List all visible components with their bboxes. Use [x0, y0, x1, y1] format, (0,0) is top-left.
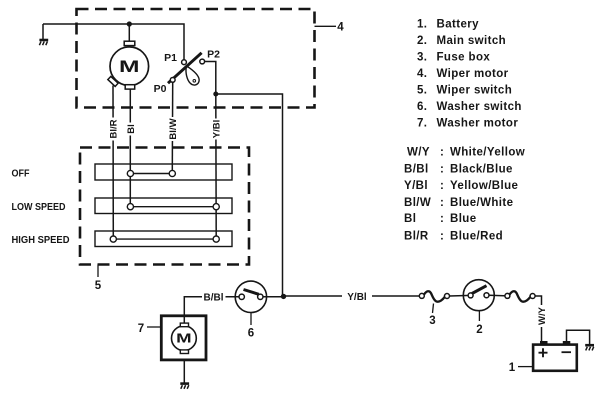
svg-text:6: 6 — [248, 328, 254, 340]
wire (fuse 3 to main switch 2) — [450, 294, 471, 297]
svg-text:2: 2 — [476, 324, 482, 336]
svg-text:Fuse box: Fuse box — [437, 52, 491, 64]
svg-text:W/Y: W/Y — [537, 306, 548, 325]
svg-text:5.: 5. — [417, 85, 427, 97]
wire (main switch to fuse) — [489, 294, 507, 297]
wire (branch to long vertical feed) — [216, 94, 283, 296]
svg-text:Wiper motor: Wiper motor — [437, 68, 509, 80]
label 5 leader — [97, 265, 99, 278]
main switch 2 — [463, 280, 494, 311]
svg-text:Washer motor: Washer motor — [437, 118, 519, 130]
contact P1 — [182, 60, 187, 65]
svg-text:P0: P0 — [154, 83, 167, 95]
label 7 leader — [147, 326, 161, 328]
svg-text:OFF: OFF — [12, 167, 30, 179]
svg-text:B/Bl: B/Bl — [204, 292, 224, 303]
svg-text:Y/Bl: Y/Bl — [212, 120, 223, 138]
wire Bl/R (tilted terminal down to HIGH SPEED contact) — [112, 86, 114, 237]
svg-text:3.: 3. — [417, 52, 427, 64]
svg-text:Black/Blue: Black/Blue — [450, 163, 513, 175]
wire Bl/W (P0 down to OFF contact) — [171, 82, 173, 170]
svg-text:Wiper switch: Wiper switch — [437, 85, 513, 97]
label 6 leader — [250, 313, 252, 326]
svg-text:Bl/R: Bl/R — [109, 119, 120, 138]
svg-text:Bl: Bl — [404, 213, 416, 225]
label 4 leader — [315, 25, 337, 27]
label Bl/W — [166, 117, 178, 141]
wire (P2 to junction below) — [205, 62, 216, 95]
label W/Y — [536, 308, 548, 325]
junction (motor supply tap) — [127, 21, 132, 26]
svg-text:Y/Bl: Y/Bl — [347, 292, 367, 303]
label 2 leader — [478, 311, 480, 321]
svg-text:W/Y: W/Y — [407, 147, 430, 159]
junction (Y/Bl tap) — [213, 92, 218, 97]
washer motor 7 (box) — [161, 316, 206, 360]
wire W/Y (fuse to battery) — [535, 296, 541, 305]
svg-text:Battery: Battery — [437, 19, 480, 31]
svg-text:White/Yellow: White/Yellow — [450, 147, 525, 159]
legend list — [417, 19, 522, 130]
HIGH SPEED position bar — [95, 231, 232, 247]
svg-text:3: 3 — [429, 315, 435, 327]
svg-text::: : — [440, 163, 444, 175]
svg-text:P1: P1 — [164, 52, 177, 64]
contact (LOW right) — [213, 204, 219, 210]
svg-text:Washer switch: Washer switch — [437, 101, 522, 113]
wire (junction to motor top terminal) — [128, 24, 130, 42]
wiper switch enclosure 5 (dashed box) — [80, 148, 249, 265]
svg-text:Yellow/Blue: Yellow/Blue — [450, 180, 518, 192]
park switch cam lobe — [186, 67, 199, 85]
svg-text:Blue/Red: Blue/Red — [450, 231, 503, 243]
wire (battery negative to ground) — [567, 330, 590, 344]
contact (LOW left) — [127, 204, 133, 210]
svg-text:4: 4 — [337, 22, 344, 34]
svg-text:Main switch: Main switch — [437, 35, 507, 47]
wire (LOW bar link) — [130, 206, 216, 208]
svg-text::: : — [440, 213, 444, 225]
svg-text:Y/Bl: Y/Bl — [404, 180, 428, 192]
svg-text:5: 5 — [95, 280, 102, 292]
park switch lever — [168, 53, 202, 83]
motor M (wiper motor) — [108, 41, 149, 89]
svg-text:7: 7 — [138, 323, 144, 335]
svg-text:2.: 2. — [417, 35, 427, 47]
LOW SPEED position bar — [95, 198, 232, 214]
fuse 3 — [419, 291, 449, 301]
wire (W/Y label to battery terminal) — [541, 327, 543, 342]
ground (battery) — [585, 345, 594, 350]
contact (HIGH left) — [110, 236, 116, 242]
fuse (battery side) — [505, 291, 535, 301]
svg-text:M: M — [119, 58, 140, 76]
wiper motor enclosure 4 (dashed box) — [77, 9, 315, 108]
svg-text::: : — [440, 197, 444, 209]
label Y/Bl (vertical wire) — [210, 119, 222, 140]
wire (HIGH bar link) — [113, 238, 216, 240]
label Bl/R — [107, 118, 119, 141]
svg-text:Bl/R: Bl/R — [404, 231, 429, 243]
wire (Y/Bl label to fuse 3) — [372, 295, 422, 297]
svg-text:LOW SPEED: LOW SPEED — [12, 201, 66, 213]
svg-text::: : — [440, 147, 444, 159]
contact (OFF left) — [127, 170, 133, 176]
wire (washer motor riser to B/Bl label) — [184, 297, 202, 323]
svg-text:4.: 4. — [417, 68, 427, 80]
svg-text:Blue/White: Blue/White — [450, 197, 513, 209]
wire (B/Bl label to washer switch) — [226, 296, 242, 298]
wire Y/Bl (down to wiper switch) — [215, 94, 217, 236]
OFF position bar — [95, 164, 232, 180]
svg-text::: : — [440, 180, 444, 192]
contact P0 — [170, 78, 175, 83]
junction (washer/Y-Bl feed) — [281, 294, 286, 299]
svg-text:Blue: Blue — [450, 213, 477, 225]
svg-text:HIGH SPEED: HIGH SPEED — [12, 234, 70, 246]
wire Bl (motor bottom terminal down to LOW SPEED contact) — [129, 89, 131, 207]
svg-text::: : — [440, 231, 444, 243]
contact (HIGH right) — [213, 236, 219, 242]
ground (washer motor) — [180, 384, 189, 389]
label 1 leader — [518, 366, 533, 368]
svg-text:1: 1 — [509, 362, 516, 374]
contact (OFF right) — [169, 170, 175, 176]
label 3 leader — [433, 304, 434, 314]
svg-text:Bl/W: Bl/W — [168, 118, 179, 139]
svg-text:Bl: Bl — [126, 124, 137, 134]
washer switch 6 — [235, 281, 266, 312]
svg-text:7.: 7. — [417, 118, 427, 130]
wire (ground to P1 drop) — [43, 24, 184, 60]
wire (washer motor to ground) — [183, 360, 185, 383]
svg-text:Bl/W: Bl/W — [404, 197, 431, 209]
battery 1 — [533, 341, 577, 371]
legend wire colour codes — [404, 147, 525, 243]
svg-text:B/Bl: B/Bl — [404, 163, 429, 175]
wire (junction to Y/Bl label) — [284, 295, 343, 297]
wire (washer switch to junction) — [263, 296, 284, 298]
svg-text:1.: 1. — [417, 19, 427, 31]
wire (OFF bar link) — [130, 173, 172, 175]
label Bl — [124, 123, 136, 136]
ground (top left) — [39, 24, 48, 45]
svg-text:P2: P2 — [207, 49, 220, 61]
svg-text:M: M — [176, 331, 192, 346]
contact P2 — [200, 59, 205, 64]
svg-text:6.: 6. — [417, 101, 427, 113]
